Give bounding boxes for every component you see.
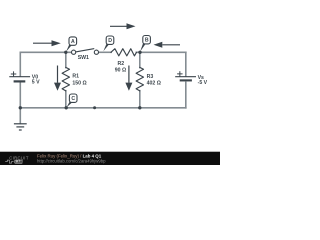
svg-text:http://circuitlab.com/c/2ara49: http://circuitlab.com/c/2ara49hjw9bp — [37, 158, 106, 163]
svg-text:C: C — [71, 96, 75, 102]
svg-text:150 Ω: 150 Ω — [72, 81, 86, 87]
svg-text:R3: R3 — [147, 74, 154, 80]
svg-text:-5 V: -5 V — [198, 80, 208, 86]
svg-text:D: D — [108, 38, 112, 44]
svg-text:402 Ω: 402 Ω — [147, 80, 161, 86]
svg-text:5 V: 5 V — [32, 80, 40, 86]
svg-text:B: B — [145, 38, 149, 44]
svg-text:SW1: SW1 — [78, 55, 89, 61]
svg-text:A: A — [71, 39, 75, 45]
svg-text:R1: R1 — [72, 74, 79, 80]
svg-text:R2: R2 — [118, 61, 125, 67]
svg-text:LAB: LAB — [15, 160, 23, 164]
svg-text:90 Ω: 90 Ω — [115, 67, 126, 73]
